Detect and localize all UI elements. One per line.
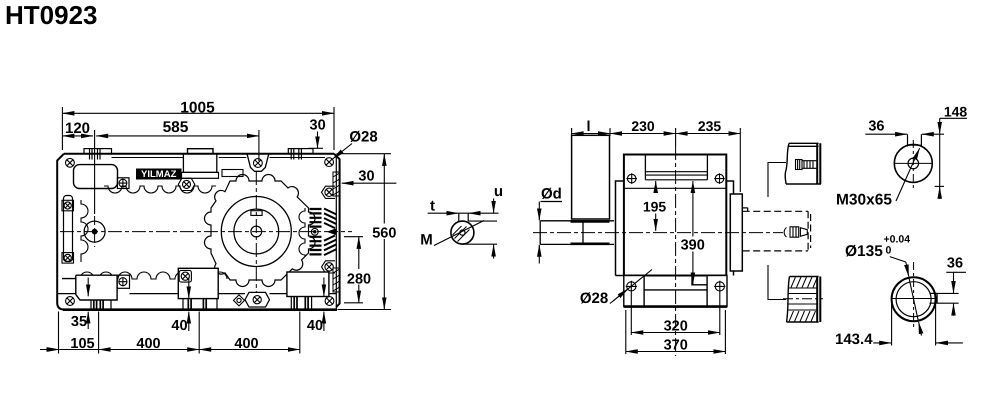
screw side bottom-left <box>626 281 637 292</box>
screw below pad2 <box>183 180 191 188</box>
right flange hatch strip upper <box>333 172 340 196</box>
svg-text:230: 230 <box>631 118 655 134</box>
top-left boss tab <box>117 178 129 189</box>
right foot <box>287 272 329 297</box>
screw top-left corner <box>66 158 75 167</box>
cover bolt <box>796 160 818 170</box>
vent grille chevrons upper <box>324 209 337 229</box>
vent grille horizontal bars <box>310 209 322 254</box>
svg-text:40: 40 <box>307 318 323 334</box>
side dimension 235 <box>676 128 741 192</box>
dimension 40 center <box>188 278 190 332</box>
svg-text:400: 400 <box>234 336 258 352</box>
detail shaft center dot <box>460 230 465 235</box>
svg-text:M30x65: M30x65 <box>836 192 892 209</box>
top-left bearing boss rounded rect <box>74 165 118 189</box>
svg-text:320: 320 <box>664 318 688 334</box>
side left outer wall <box>616 181 624 276</box>
right flange hatch strip lower <box>333 268 340 292</box>
detail output keyway <box>908 134 922 146</box>
svg-text:280: 280 <box>347 272 371 288</box>
svg-text:105: 105 <box>70 336 94 352</box>
dimension 30 right <box>342 182 397 184</box>
vent grille chevrons lower <box>324 236 337 256</box>
center ankle with ticks <box>183 299 217 310</box>
svg-text:M: M <box>420 231 433 248</box>
top pad 2 boss below <box>183 154 216 173</box>
svg-text:400: 400 <box>136 336 160 352</box>
side top recess lines <box>645 172 707 180</box>
vent screw <box>311 228 318 235</box>
small shaft circle crosshair vertical <box>94 216 96 247</box>
side dimension 370 <box>626 310 726 354</box>
svg-text:u: u <box>494 183 503 200</box>
small label rect <box>222 170 243 177</box>
left foot tab <box>117 275 129 288</box>
screw right lower <box>325 263 333 271</box>
top cover part <box>785 143 821 184</box>
bushing centerline <box>783 298 823 300</box>
output flange strip <box>730 194 742 271</box>
top pad 2 boss flange <box>182 172 219 178</box>
side view input shaft <box>540 221 614 245</box>
top pad 1 with ticks <box>84 149 112 160</box>
svg-text:30: 30 <box>310 117 326 133</box>
screw side top-right <box>714 173 725 184</box>
side dimension 390 <box>692 181 694 284</box>
svg-text:370: 370 <box>664 337 688 353</box>
dimension 36 top <box>865 133 933 135</box>
side view input block <box>572 135 610 219</box>
detail hollow bore circle outer <box>892 277 936 321</box>
interior wavy contour top <box>104 186 216 193</box>
side dimension 195 <box>655 181 657 231</box>
screw left strip bottom <box>64 254 71 261</box>
screw side bottom-right <box>714 281 725 292</box>
svg-text:0: 0 <box>886 245 892 257</box>
hollow shaft hidden outline <box>743 208 811 251</box>
vent arrow <box>327 228 337 235</box>
shaft end bolt symbol <box>784 227 807 237</box>
inner top wall line <box>112 157 326 159</box>
screw top-right corner (Ø28) <box>325 158 334 167</box>
dimension 1005 <box>62 107 334 150</box>
side flange bottom line <box>624 187 726 189</box>
dimension 120 <box>62 130 94 214</box>
detail bore vertical centerline <box>913 262 915 330</box>
front inner right flange line <box>335 156 337 309</box>
side dimension l <box>572 128 610 136</box>
detail shaft section circle <box>451 221 474 244</box>
right hex boss upper <box>322 186 336 198</box>
front view body outline <box>57 154 339 310</box>
dimension Ød arrows <box>538 202 540 264</box>
side horizontal centerline <box>533 232 783 234</box>
svg-text:36: 36 <box>868 119 884 135</box>
svg-text:YILMAZ: YILMAZ <box>141 169 177 180</box>
detail keyway <box>459 213 468 221</box>
top hex oil plug boss <box>247 154 269 172</box>
diamond drain screw <box>234 295 245 306</box>
svg-text:40: 40 <box>171 318 187 334</box>
bracket leader top cover <box>768 163 786 198</box>
hollow shaft bore circle <box>234 209 279 254</box>
svg-text:Ø28: Ø28 <box>580 290 608 307</box>
center foot <box>178 268 218 298</box>
dimension 36 right <box>937 272 966 316</box>
side dimension 230 <box>610 128 676 146</box>
screw on top-left tab <box>119 179 128 188</box>
detail output shaft end circle <box>894 144 932 182</box>
big bearing circle <box>221 197 291 267</box>
dimension 585 <box>96 130 259 161</box>
left foot <box>62 275 117 300</box>
dimension 35 <box>87 278 89 330</box>
side top flange verticals <box>645 155 707 180</box>
wavy contour right near grille <box>299 208 305 257</box>
bottom hex plug boss <box>245 292 270 307</box>
Ø135 leader and diameter line <box>890 257 906 262</box>
detail output horizontal diameter <box>894 162 932 164</box>
screw left foot tab <box>118 277 127 286</box>
screw left strip top <box>64 202 71 209</box>
screw side top-left <box>626 173 637 184</box>
bushing hatch top <box>791 277 817 288</box>
bore keyway <box>251 211 262 216</box>
svg-text:585: 585 <box>163 119 189 136</box>
screw top hex <box>254 159 263 168</box>
bottom dimension chain 105/400/400 <box>40 312 300 354</box>
top pad 3 with ticks <box>288 149 313 160</box>
YILMAZ logo plate <box>136 169 182 180</box>
dimension 40 right <box>323 278 325 332</box>
dimension 148 <box>933 118 967 199</box>
detail hollow bore circle inner <box>896 282 931 317</box>
detail bore horizontal chord <box>892 298 937 300</box>
bracket leader bottom bushing <box>768 265 786 300</box>
svg-text:l: l <box>586 119 590 135</box>
interior wavy contour bottom <box>75 272 227 279</box>
svg-text:148: 148 <box>944 103 968 119</box>
side dimension 320 <box>631 292 720 335</box>
svg-text:35: 35 <box>71 314 87 330</box>
svg-text:36: 36 <box>947 255 963 271</box>
side right outer wall <box>726 181 733 276</box>
right ankle with ticks <box>291 297 311 310</box>
dimension 143.4 <box>873 304 963 346</box>
svg-text:390: 390 <box>681 237 705 253</box>
hex boss below pad2 <box>178 178 195 190</box>
center foot boss <box>179 270 191 282</box>
right hex boss lower <box>322 261 336 273</box>
svg-text:t: t <box>430 198 435 215</box>
svg-text:195: 195 <box>643 198 667 214</box>
front base plate top line <box>57 293 336 295</box>
svg-text:120: 120 <box>65 120 90 137</box>
detail output inner hole <box>908 158 919 169</box>
input shaft seat heavy lines <box>571 221 610 243</box>
screw bottom-right corner <box>325 297 334 306</box>
svg-text:Ød: Ød <box>541 186 562 203</box>
svg-text:Ø135: Ø135 <box>845 243 883 260</box>
small shaft circle <box>84 221 105 242</box>
detail bore keyway <box>930 293 938 303</box>
bushing hatch bottom <box>789 311 816 322</box>
screw right upper <box>325 188 333 196</box>
detail output vertical centerline <box>912 140 914 188</box>
dimension 30 top <box>308 132 323 149</box>
screw center foot <box>181 272 189 280</box>
screw bottom-left corner <box>66 297 75 306</box>
screw bottom hex <box>253 296 261 304</box>
side vertical centerline <box>675 146 677 356</box>
dimension 560 <box>337 154 392 310</box>
dimension u <box>462 199 497 259</box>
center hole circle <box>251 226 262 237</box>
detail shaft hatch <box>453 226 470 242</box>
scalloped octagon housing boss <box>205 175 315 287</box>
svg-text:143.4: 143.4 <box>835 331 873 348</box>
dimension 280 <box>344 237 363 303</box>
front vertical centerline <box>255 171 257 293</box>
left ankle with ticks <box>91 300 111 310</box>
bottom bushing part <box>787 277 821 323</box>
left strip screw pad top <box>62 200 74 211</box>
left cover strip <box>64 196 73 262</box>
interior wavy contour left <box>81 200 88 262</box>
side bottom outline <box>616 276 728 307</box>
side view main body <box>624 155 726 276</box>
svg-text:235: 235 <box>698 118 722 134</box>
svg-text:Ø28: Ø28 <box>349 129 377 146</box>
dimension t <box>428 212 499 214</box>
front horizontal centerline <box>60 231 352 233</box>
top pad 2 raised cap <box>188 149 214 154</box>
left strip screw pad bottom <box>62 253 74 264</box>
svg-text:HT0923: HT0923 <box>5 0 98 30</box>
svg-text:30: 30 <box>358 168 374 184</box>
svg-text:560: 560 <box>372 226 396 242</box>
svg-text:1005: 1005 <box>180 100 215 117</box>
